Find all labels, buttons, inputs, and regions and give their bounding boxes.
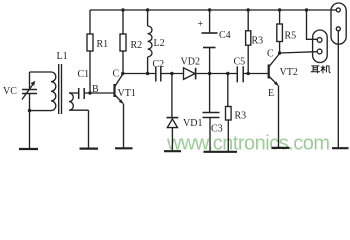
wire C2 to VD2 — [161, 73, 184, 75]
capacitor C1 — [78, 88, 80, 99]
node R3 upper bottom — [247, 72, 250, 75]
node rail L2 — [146, 8, 149, 11]
wire top supply rail — [90, 9, 336, 11]
svg-text:E: E — [268, 88, 274, 99]
wire collector rail to C2 — [123, 73, 156, 75]
wire VD1 column — [171, 74, 173, 118]
wire VT1 emitter to ground — [123, 104, 125, 148]
svg-text:R1: R1 — [97, 39, 109, 50]
wire VD2 to C5 — [196, 73, 238, 75]
svg-text:C5: C5 — [234, 57, 246, 68]
node rail R3 — [247, 8, 250, 11]
svg-text:VC: VC — [3, 86, 17, 97]
svg-text:R3: R3 — [235, 111, 247, 122]
node L2 bottom — [146, 72, 149, 75]
svg-text:L2: L2 — [154, 38, 165, 49]
ground VD1 — [164, 150, 181, 152]
svg-text:C2: C2 — [153, 59, 165, 70]
wire VT2 emitter to ground — [278, 86, 280, 148]
transistor VT1 — [113, 84, 115, 97]
capacitor C5 — [236, 66, 238, 82]
svg-text:C1: C1 — [78, 69, 90, 80]
resistor R2 — [122, 10, 124, 74]
transformer L1 primary — [51, 72, 56, 111]
power jack right — [331, 3, 346, 44]
node B — [88, 91, 91, 94]
earphone jack — [313, 30, 328, 63]
transistor VT2 — [268, 64, 270, 78]
svg-text:+: + — [198, 19, 204, 30]
svg-text:C4: C4 — [219, 30, 231, 41]
variable capacitor VC — [29, 72, 31, 89]
wire VC to L1 top — [30, 71, 52, 73]
resistor R3 upper (bias) — [247, 10, 249, 74]
ground L1 secondary — [80, 148, 99, 150]
wire L1 secondary to C1 — [69, 92, 79, 94]
wire earphone top feed — [307, 10, 317, 39]
ground C3 — [204, 151, 221, 153]
node rail R5 — [278, 8, 281, 11]
wire jack to ground — [337, 31, 339, 147]
ground VT2 emitter — [272, 147, 290, 149]
label earphone 耳机 — [311, 65, 331, 73]
wire L1 secondary bottom to ground — [88, 110, 90, 148]
svg-text:R5: R5 — [285, 31, 297, 42]
ground jack — [332, 147, 349, 149]
svg-text:VT1: VT1 — [118, 88, 136, 99]
svg-text:www.cntronics.com: www.cntronics.com — [166, 133, 330, 155]
resistor R1 — [89, 10, 91, 93]
transformer L1 core — [59, 64, 62, 114]
diode VD1 — [167, 117, 179, 119]
wire C5 to base VT2 — [243, 73, 268, 75]
svg-text:C: C — [113, 69, 120, 80]
svg-text:VT2: VT2 — [280, 67, 298, 78]
svg-text:R2: R2 — [131, 40, 143, 51]
ground R3 — [220, 151, 238, 153]
ground VT1 emitter — [115, 147, 133, 149]
node VC bottom — [28, 109, 31, 112]
capacitor C3 — [209, 74, 211, 113]
capacitor C2 — [155, 67, 157, 82]
transformer L1 secondary — [69, 93, 89, 110]
wire collector VT2 to earphone — [280, 52, 317, 53]
node collector VT1 — [121, 72, 124, 75]
node rail R2 — [121, 8, 124, 11]
node R3 top — [226, 72, 229, 75]
node C4 bottom — [208, 72, 211, 75]
node rail earphone — [305, 8, 308, 11]
svg-text:VD1: VD1 — [183, 118, 202, 129]
svg-text:L1: L1 — [57, 51, 68, 62]
wire C1 to base VT1 — [84, 92, 114, 94]
node rail C4 — [208, 8, 211, 11]
resistor R5 — [279, 10, 281, 53]
resistor R3 lower — [227, 74, 229, 107]
svg-text:VD2: VD2 — [181, 57, 200, 68]
inductor L2 — [147, 10, 149, 26]
node detector junction — [170, 72, 173, 75]
svg-text:C3: C3 — [211, 124, 223, 135]
svg-text:B: B — [92, 84, 99, 95]
svg-text:R3: R3 — [252, 36, 264, 47]
wire VC to L1 bottom — [30, 110, 52, 112]
node collector VT2 — [278, 51, 281, 54]
capacitor C4 — [209, 10, 211, 33]
svg-text:C: C — [267, 49, 274, 60]
diode VD2 — [184, 68, 196, 80]
ground VC — [19, 148, 38, 150]
